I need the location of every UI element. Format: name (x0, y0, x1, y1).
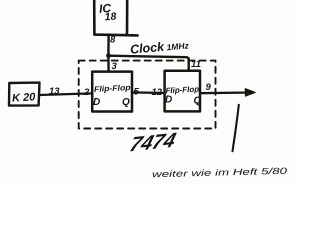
flip-flop FF1 box (92, 72, 132, 112)
output arrowhead (245, 89, 255, 97)
wire IC pin 8 to clock node (107, 35, 110, 55)
svg-text:Flip-Flop: Flip-Flop (94, 83, 131, 94)
svg-text:D: D (93, 97, 100, 108)
svg-text:5: 5 (134, 87, 140, 98)
wire FF2 Q pin9 output (200, 91, 252, 94)
svg-text:2: 2 (83, 87, 90, 98)
svg-text:8: 8 (110, 35, 116, 46)
svg-text:9: 9 (206, 82, 212, 93)
svg-text:11: 11 (191, 59, 201, 70)
svg-text:K 20: K 20 (12, 91, 37, 104)
wire FF1 Q pin5 to FF2 D pin12 (132, 91, 165, 94)
svg-text:3: 3 (112, 61, 118, 72)
svg-text:18: 18 (104, 11, 117, 24)
node clock junction (106, 53, 111, 58)
wire clock line to FF2 CLK pin 11 (109, 56, 189, 71)
flip-flop FF2 box (165, 71, 200, 112)
svg-text:Clock: Clock (129, 40, 165, 57)
dashed box 7474 (79, 61, 216, 129)
svg-text:Q: Q (122, 97, 130, 108)
svg-text:12: 12 (152, 87, 163, 98)
svg-text:7474: 7474 (127, 129, 179, 157)
IC U1 box (94, 0, 137, 35)
annotation slash (233, 105, 239, 151)
svg-text:Q: Q (194, 96, 202, 107)
svg-text:D: D (165, 95, 172, 106)
wire K20 to FF1 D pin 2 (39, 93, 92, 95)
svg-text:13: 13 (49, 86, 60, 97)
svg-text:weiter wie im Heft 5/80: weiter wie im Heft 5/80 (152, 166, 287, 180)
wire clock node to FF1 CLK pin 3 (107, 56, 110, 72)
svg-text:1MHz: 1MHz (166, 40, 190, 52)
K20 box (9, 83, 40, 106)
